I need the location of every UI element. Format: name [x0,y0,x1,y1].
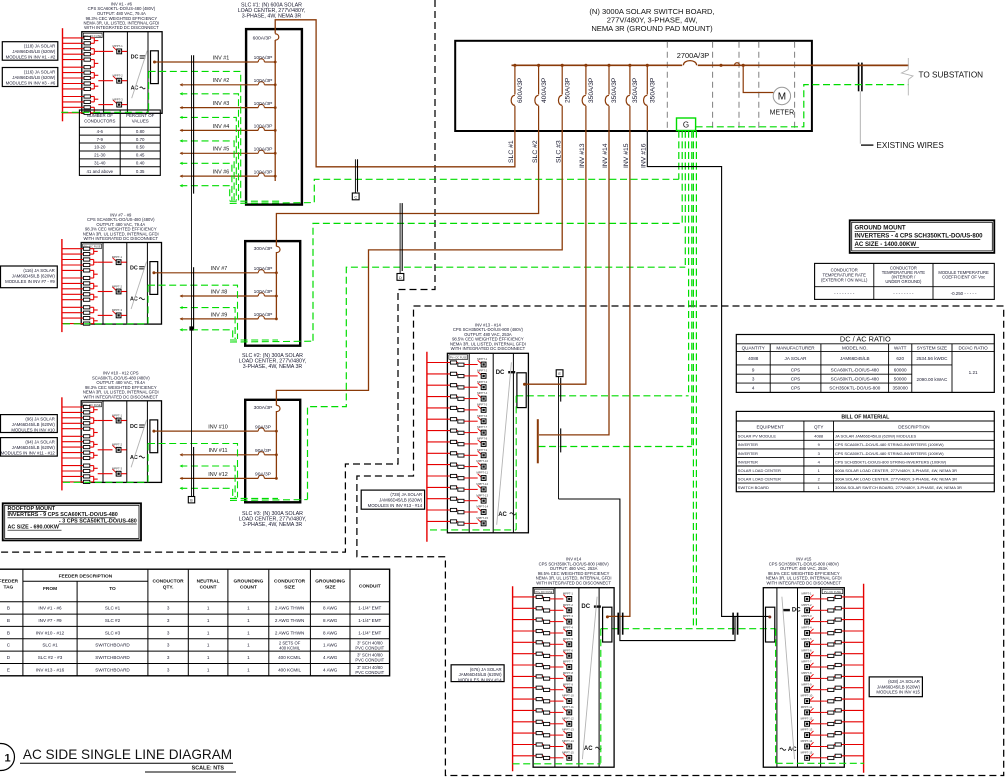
svg-text:8 AWG: 8 AWG [323,606,338,611]
feeder to INV#15 block (black, existing route) [647,131,771,619]
svg-text:SLC #1: SLC #1 [42,643,58,648]
svg-text:SIZE: SIZE [284,584,295,590]
svg-text:31-40: 31-40 [94,161,106,166]
svg-text:(EXTERIOR / ON WALL): (EXTERIOR / ON WALL) [821,277,868,282]
meter M [770,87,795,116]
svg-text:MODULES IN INV #14: MODULES IN INV #14 [458,678,502,683]
svg-text:TAG: TAG [4,584,14,590]
svg-text:MODULES IN INV #3 - #6: MODULES IN INV #3 - #6 [6,80,56,85]
INV#10-12 PV string fuses [62,405,98,483]
svg-text:100A/3P: 100A/3P [254,101,273,107]
svg-text:300A/3P: 300A/3P [254,405,273,411]
svg-text:INV #8: INV #8 [211,289,227,295]
inverter block INV#13 [427,322,529,542]
svg-text:21-30: 21-30 [94,153,106,158]
branch breaker 100A/3P and wire INV #4 [180,124,276,132]
svg-text:WITH INTEGRATED DC DISCONNECT: WITH INTEGRATED DC DISCONNECT [536,581,611,586]
grounding run SLC#1 to switchboard (green dashed) [314,179,679,202]
svg-text:CPS SCA60KTL-DO/US-480 STRING-: CPS SCA60KTL-DO/US-480 STRING-INVERTERS … [835,442,944,447]
svg-text:EQUIPMENT: EQUIPMENT [756,425,784,430]
INV#1-6 AC disconnect breaker [151,51,159,84]
svg-text:90A/3P: 90A/3P [255,472,271,478]
svg-text:DC / AC RATIO: DC / AC RATIO [840,335,891,344]
branch breaker 100A/3P and wire INV #7 [162,266,278,274]
module label box modules INV#7-9 [1,266,58,288]
svg-text:1: 1 [247,618,250,623]
feeder SLC#3 to switchboard (brown) [276,131,562,400]
svg-text:INV #10: INV #10 [208,425,227,431]
INV#1-6 DC bus bar (red) [62,28,64,121]
bank2 equipment grounds (green dashed) [63,285,313,342]
branch breaker 100A/3P and wire INV #1 [162,55,277,63]
svg-text:100A/3P: 100A/3P [254,124,273,130]
svg-text:-0.250 - - - - -: -0.250 - - - - - [951,291,977,296]
svg-text:41 and above: 41 and above [86,169,113,174]
INV#7-9 DC bus bar (red) [61,239,63,332]
svg-text:B: B [7,618,10,623]
conduit stub-up marks (existing service) [859,63,862,92]
svg-text:INVERTER: INVERTER [738,442,758,447]
svg-text:MPPT-8: MPPT-8 [563,671,574,675]
svg-text:SCALE: NTS: SCALE: NTS [192,766,225,772]
svg-text:JAM66D45/LB (620W): JAM66D45/LB (620W) [12,273,56,278]
INV#10-12 MPPT disconnects [98,413,127,476]
svg-text:JAM66D45/LB (620W): JAM66D45/LB (620W) [459,672,503,677]
svg-text:AC SIDE SINGLE LINE DIAGRAM: AC SIDE SINGLE LINE DIAGRAM [23,747,232,762]
svg-text:MPPT-4: MPPT-4 [477,391,488,395]
svg-text:(118) JA SOLAR: (118) JA SOLAR [24,44,55,49]
svg-text:MODULES IN INV #15: MODULES IN INV #15 [876,690,920,695]
module label box modules INV#10 [1,415,58,433]
svg-text:600A/3P: 600A/3P [517,77,524,103]
load center SLC #2 (300A) [245,241,300,346]
svg-text:PV+ DC FUSE: PV+ DC FUSE [535,590,552,594]
svg-text:SLC #2 - #3: SLC #2 - #3 [38,655,63,660]
svg-text:(728) JA SOLAR: (728) JA SOLAR [390,492,422,497]
svg-text:100A/3P: 100A/3P [254,78,273,84]
svg-text:MPPT-3: MPPT-3 [477,380,488,384]
svg-text:CPS SCH350KTL-DO/US-800 STRING: CPS SCH350KTL-DO/US-800 STRING-INVERTERS… [835,459,947,464]
bank1 equipment grounds (green dashed) [61,71,314,203]
conduit stub-up at INV#14 [618,613,623,635]
svg-text:8 AWG: 8 AWG [323,630,338,635]
svg-text:INV #3: INV #3 [213,101,229,107]
svg-text:SWITCH BOARD: SWITCH BOARD [738,485,769,490]
svg-text:SOLAR PV MODULE: SOLAR PV MODULE [738,434,777,439]
svg-text:E: E [7,667,10,672]
svg-text:100A/3P: 100A/3P [254,169,273,175]
svg-text:SLC #1: SLC #1 [508,140,515,163]
svg-text:INV #16: INV #16 [641,143,648,168]
svg-text:3: 3 [752,376,755,381]
svg-text:MPPT-15: MPPT-15 [801,750,813,754]
svg-text:GROUNDING: GROUNDING [233,579,263,585]
svg-text:4: 4 [752,386,755,391]
svg-text:INV #13 - #16: INV #13 - #16 [36,667,65,672]
svg-text:MANUFACTURER: MANUFACTURER [776,346,815,351]
feeder tag B line [188,55,194,503]
svg-text:(116) JA SOLAR: (116) JA SOLAR [23,268,54,273]
inverter block INV#14 [513,557,615,772]
svg-text:1: 1 [207,667,210,672]
switchboard feeder breaker 600A/3P (SLC #1) [508,64,524,163]
svg-text:JA SOLAR JAM66D45/LB (620W) MO: JA SOLAR JAM66D45/LB (620W) MODULES [835,434,916,439]
svg-text:1: 1 [207,618,210,623]
INV#13 AC disconnect breaker [517,373,526,408]
branch breaker 100A/3P and wire INV #5 [180,147,276,155]
svg-text:(96) JA SOLAR: (96) JA SOLAR [25,417,54,422]
svg-text:SCA50KTL-DO/US-480: SCA50KTL-DO/US-480 [831,376,880,381]
svg-text:2 AWG THWN: 2 AWG THWN [275,630,304,635]
svg-text:WITH INTEGRATED DC DISCONNECT: WITH INTEGRATED DC DISCONNECT [84,25,159,30]
svg-text:JAM66D45/LB (620W): JAM66D45/LB (620W) [877,684,921,689]
INV#1-6 PV string fuses [63,36,99,114]
SLC #3 title [239,511,307,528]
INV#14 AC disconnect breaker [603,607,612,642]
svg-text:4088: 4088 [748,356,759,361]
INV#14 nameplate text [536,557,612,586]
svg-text:TO SUBSTATION: TO SUBSTATION [919,70,984,79]
bank2 inverter output wire (brown) [154,272,162,274]
svg-text:QTY: QTY [814,425,823,430]
svg-text:AC SIZE - 690.00KW: AC SIZE - 690.00KW [8,525,60,531]
substation break symbol [902,58,914,95]
svg-text:AC: AC [498,512,507,518]
svg-text:DC: DC [130,266,138,272]
svg-text:1: 1 [4,753,10,765]
SLC #3 bus (brown) [275,411,277,479]
svg-text:WITH INTEGRATED DC DISCONNECT: WITH INTEGRATED DC DISCONNECT [766,581,841,586]
svg-text:DC/AC RATIO: DC/AC RATIO [958,346,988,351]
svg-text:PERCENT OF: PERCENT OF [126,113,155,118]
svg-text:MPPT-1: MPPT-1 [563,592,574,596]
svg-text:MPPT-8: MPPT-8 [477,437,488,441]
svg-text:SLC #2: SLC #2 [532,140,539,163]
INV#15 PV string fuses [825,595,864,759]
svg-text:INV #1: INV #1 [213,55,229,61]
svg-text:2 AWG THWN: 2 AWG THWN [275,618,304,623]
feeder to INV#13 (brown) [523,131,586,386]
bank1 inverter output wire (brown) [155,61,163,63]
ground mount area boundary (dashed) [357,306,1004,776]
svg-text:CONDUCTORS: CONDUCTORS [84,118,115,123]
branch breaker 100A/3P and wire INV #9 [180,312,277,320]
svg-text:MPPT-2: MPPT-2 [563,603,574,607]
svg-text:350A/3P: 350A/3P [632,77,639,103]
svg-text:10-20: 10-20 [94,145,106,150]
svg-text:- 3 CPS SCA50KTL-DO/US-480: - 3 CPS SCA50KTL-DO/US-480 [59,518,137,524]
svg-text:1: 1 [247,606,250,611]
grounding wire to substation (green dashed) [696,85,909,127]
svg-text:350A/3P: 350A/3P [650,77,657,103]
INV#14 MPPT disconnects [553,592,575,761]
svg-text:350000: 350000 [893,386,909,391]
module label box modules INV#13-14 [361,490,424,509]
svg-text:INVERTERS - 4 CPS SCH350KTL-DO: INVERTERS - 4 CPS SCH350KTL-DO/US-800 [855,233,984,240]
INV#13 MPPT disconnects [467,357,489,526]
module label box modules INV#14b [451,665,504,683]
inverter block INV#15 [763,557,863,773]
svg-text:0.50: 0.50 [136,145,145,150]
svg-text:MPPT-2: MPPT-2 [801,603,812,607]
svg-text:INV #15: INV #15 [623,143,630,168]
svg-text:MPPT-7: MPPT-7 [563,660,574,664]
svg-text:MPPT-12: MPPT-12 [801,716,813,720]
svg-text:4088: 4088 [814,434,824,439]
switchboard feeder breaker 350A/3P (INV #14) [602,64,618,168]
svg-text:MPPT-11: MPPT-11 [801,705,813,709]
svg-text:1: 1 [207,643,210,648]
svg-text:MPPT-3: MPPT-3 [563,614,574,618]
module label box modules INV#3-6 [2,68,58,87]
svg-text:QTY.: QTY. [163,584,174,590]
feeder SLC#1 to switchboard (brown) [275,20,515,167]
svg-text:1: 1 [207,630,210,635]
svg-text:SWITCHBOARD: SWITCHBOARD [95,655,130,660]
conduit stub-up at INV#15 [733,613,738,635]
svg-text:INV #5: INV #5 [213,147,229,153]
svg-text:MPPT-5: MPPT-5 [477,403,488,407]
svg-text:2534.56 kWDC: 2534.56 kWDC [916,356,948,361]
svg-text:MPPT-5: MPPT-5 [801,637,812,641]
svg-text:DC: DC [130,424,138,430]
SLC #2 bus (brown) [275,252,277,320]
svg-text:- - - - - - - -: - - - - - - - - [834,291,855,296]
svg-text:NEMA 3R (GROUND PAD MOUNT): NEMA 3R (GROUND PAD MOUNT) [591,24,713,33]
svg-text:1.21: 1.21 [969,370,978,375]
svg-text:COUNT: COUNT [200,584,217,590]
INV#10-12 AC disconnect breaker [150,420,158,453]
svg-text:1: 1 [247,667,250,672]
svg-text:400A/3P: 400A/3P [541,77,548,103]
SLC #3 300A/3P main breaker [254,400,280,412]
svg-text:1: 1 [247,630,250,635]
svg-text:MPPT-1: MPPT-1 [477,357,488,361]
svg-text:COUNT: COUNT [240,584,257,590]
svg-text:- - - - - - - -: - - - - - - - - [893,291,914,296]
svg-text:0.45: 0.45 [136,153,145,158]
SLC #1 title [238,2,306,19]
SLC #2 300A/3P main breaker [254,241,280,253]
load center SLC #3 (300A) [245,400,300,503]
INV#13 nameplate text [450,322,526,351]
ground bus G box [677,118,696,131]
svg-text:CPS: CPS [791,386,800,391]
svg-text:(628) JA SOLAR: (628) JA SOLAR [888,679,920,684]
branch breaker 90A/3P and wire INV #12 [180,472,277,480]
svg-text:3: 3 [167,606,170,611]
rooftop mount summary box [3,503,141,540]
svg-text:1 AWG: 1 AWG [323,643,338,648]
svg-text:COEFFICIENT OF Voc: COEFFICIENT OF Voc [942,275,985,280]
svg-text:1: 1 [207,655,210,660]
svg-text:MPPT-13: MPPT-13 [801,728,813,732]
conductor temperature rating table [815,263,995,299]
svg-text:VALUES: VALUES [132,118,149,123]
grounding run to INV#14 and INV#15 (green dashed) [601,628,776,630]
svg-text:INVERTERS - 9 CPS SCA60KTL-DO/: INVERTERS - 9 CPS SCA60KTL-DO/US-480 [8,512,118,518]
drawing title [0,744,236,773]
svg-text:SYSTEM SIZE: SYSTEM SIZE [917,346,947,351]
svg-text:MODULES IN INV #10: MODULES IN INV #10 [11,427,55,432]
feeder INV#14 breaker to splice (brown) [538,131,609,463]
ground mount summary box [850,220,995,253]
existing wires leader [860,91,873,145]
svg-text:INVERTER: INVERTER [738,451,758,456]
svg-text:100A/3P: 100A/3P [254,266,273,272]
svg-text:B: B [7,606,10,611]
svg-text:FEEDER DESCRIPTION: FEEDER DESCRIPTION [59,573,113,579]
svg-text:SLC #3: SLC #3 [555,140,562,163]
INV#7-9 AC disconnect breaker [150,262,158,295]
switchboard (N) 3000A solar switch board [455,41,812,131]
svg-text:CPS: CPS [791,367,800,372]
INV#1-6 MPPT disconnects [98,44,127,107]
module label box modules INV#11-12 [1,438,58,457]
INV#15 MPPT disconnects [801,592,825,761]
svg-text:TO: TO [109,586,116,592]
svg-text:WITH INTEGRATED DC DISCONNECT: WITH INTEGRATED DC DISCONNECT [451,346,526,351]
feeder tag C [352,159,359,200]
SLC #1 600A/3P main breaker [253,29,279,41]
svg-text:AC: AC [584,746,593,752]
INV#14 DC bus bar (red) [512,586,514,771]
svg-text:60000: 60000 [894,367,907,372]
svg-text:GROUND MOUNT: GROUND MOUNT [855,225,906,232]
svg-text:WITH INTEGRATED DC DISCONNECT: WITH INTEGRATED DC DISCONNECT [83,394,158,399]
svg-text:300A/3P: 300A/3P [254,246,273,252]
svg-text:SLC #3: SLC #3 [105,630,121,635]
svg-text:JAM66D45/LB (620W): JAM66D45/LB (620W) [12,49,56,54]
switchboard main bus (brown) [512,64,909,66]
svg-text:INV #7 - #9: INV #7 - #9 [38,618,62,623]
svg-text:DC: DC [792,608,801,614]
svg-text:250A/3P: 250A/3P [564,77,571,103]
svg-text:MODULES IN INV #11 - #12: MODULES IN INV #11 - #12 [1,450,56,455]
svg-text:FEEDER: FEEDER [0,579,19,585]
svg-text:3: 3 [167,643,170,648]
svg-text:1: 1 [247,655,250,660]
svg-text:INVERTER: INVERTER [738,459,758,464]
inverter block INV#1-6 [63,2,163,122]
svg-text:MPPT-6: MPPT-6 [477,414,488,418]
svg-text:3-PHASE, 4W, NEMA 3R: 3-PHASE, 4W, NEMA 3R [243,364,303,370]
svg-text:9: 9 [752,367,755,372]
svg-text:0.70: 0.70 [136,137,145,142]
svg-text:JA SOLAR: JA SOLAR [785,356,808,361]
svg-text:100A/3P: 100A/3P [254,147,273,153]
rooftop area boundary (dashed) [0,0,435,552]
svg-text:MPPT-6: MPPT-6 [801,648,812,652]
svg-text:MPPT-1: MPPT-1 [801,592,812,596]
svg-text:INV #11: INV #11 [208,448,227,454]
grounding run INV#13 (green dashed) [516,395,688,397]
svg-text:MODULES IN INV #13 - #14: MODULES IN INV #13 - #14 [368,503,423,508]
svg-text:WATT: WATT [894,346,907,351]
svg-text:INV #13: INV #13 [579,143,586,168]
branch breaker 90A/3P and wire INV #10 [162,424,278,432]
svg-text:2 AWG THWN: 2 AWG THWN [275,606,304,611]
inverter block INV#10-12 [62,371,162,491]
INV#13 ground (green dashed) [430,396,516,530]
svg-text:SWITCHBOARD: SWITCHBOARD [95,667,130,672]
INV#7-9 MPPT disconnects [98,255,127,318]
svg-text:MPPT-4: MPPT-4 [801,626,812,630]
INV#14 PV string fuses [513,595,553,759]
svg-text:1-1/4" EMT: 1-1/4" EMT [358,606,381,611]
breaker 2700A/3P main [677,51,710,70]
svg-text:QUANTITY: QUANTITY [742,346,765,351]
svg-text:MPPT-3: MPPT-3 [801,614,812,618]
branch breaker 90A/3P and wire INV #11 [180,448,277,456]
INV#15 DC bus bar (red) [863,584,865,773]
feeder schedule table [0,569,390,676]
feeder to INV#14 block (brown) [606,131,630,619]
INV#7-9 nameplate text [83,212,159,241]
bank3 inverter output wire (brown) [154,430,162,432]
meter branch wire [719,63,773,93]
svg-text:100A/3P: 100A/3P [254,55,273,61]
svg-text:620: 620 [896,356,904,361]
svg-text:(94) JA SOLAR: (94) JA SOLAR [25,440,54,445]
svg-text:ROOFTOP MOUNT: ROOFTOP MOUNT [8,506,56,512]
svg-text:MODULES IN INV #7 - #9: MODULES IN INV #7 - #9 [5,279,55,284]
svg-text:4-6: 4-6 [97,129,104,134]
svg-text:SOLAR LOAD CENTER: SOLAR LOAD CENTER [738,468,781,473]
svg-text:MODULES IN INV #1 - #2: MODULES IN INV #1 - #2 [6,55,56,60]
conductor count derating table [79,110,160,175]
svg-text:DESCRIPTION: DESCRIPTION [898,425,929,430]
branch breaker 100A/3P and wire INV #8 [180,289,277,297]
INV#14 ground (green dashed) [513,629,601,764]
svg-text:1: 1 [207,606,210,611]
svg-text:(676) JA SOLAR: (676) JA SOLAR [470,667,502,672]
svg-text:G: G [683,120,689,129]
svg-text:AC SIZE - 1400.00KW: AC SIZE - 1400.00KW [855,241,917,248]
svg-text:SCH350KTL-DO/US-800: SCH350KTL-DO/US-800 [829,386,881,391]
svg-text:PVC CONDUIT: PVC CONDUIT [355,658,384,663]
svg-text:INV #1 - #6: INV #1 - #6 [38,606,62,611]
INV#13 PV string fuses [427,361,467,525]
svg-text:MPPT-2: MPPT-2 [477,369,488,373]
svg-text:CONDUCTOR: CONDUCTOR [153,579,185,585]
svg-text:100A/3P: 100A/3P [254,289,273,295]
svg-text:3: 3 [167,655,170,660]
svg-text:NEUTRAL: NEUTRAL [197,579,220,585]
module label box modules INV#15b [869,677,922,697]
svg-text:INV #9: INV #9 [211,312,227,318]
svg-text:INV #4: INV #4 [213,124,229,130]
svg-text:3-PHASE, 4W, NEMA 3R: 3-PHASE, 4W, NEMA 3R [243,522,303,528]
branch breaker 100A/3P and wire INV #2 [180,78,276,86]
svg-text:FROM: FROM [43,586,57,592]
svg-text:JAM66D45/LB (620W): JAM66D45/LB (620W) [379,498,423,503]
svg-text:SOLAR LOAD CENTER: SOLAR LOAD CENTER [738,477,781,482]
svg-text:90A/3P: 90A/3P [255,448,271,454]
svg-text:MPPT-5: MPPT-5 [563,637,574,641]
switchboard feeder breaker 350A/3P (INV #16) [641,64,657,168]
svg-text:SCA60KTL-DO/US-480: SCA60KTL-DO/US-480 [831,367,880,372]
svg-text:50000: 50000 [894,376,907,381]
svg-text:0.35: 0.35 [136,169,145,174]
svg-text:1-1/4" EMT: 1-1/4" EMT [358,618,381,623]
svg-text:UNDER GROUND): UNDER GROUND) [885,279,922,284]
DC/AC ratio table [736,335,994,393]
svg-text:INV #10 - #12: INV #10 - #12 [36,630,65,635]
feeder tag E and underground run to INV#14 [556,370,735,641]
svg-text:MPPT-6: MPPT-6 [563,648,574,652]
svg-text:JAM66D45/LB (620W): JAM66D45/LB (620W) [12,75,56,80]
